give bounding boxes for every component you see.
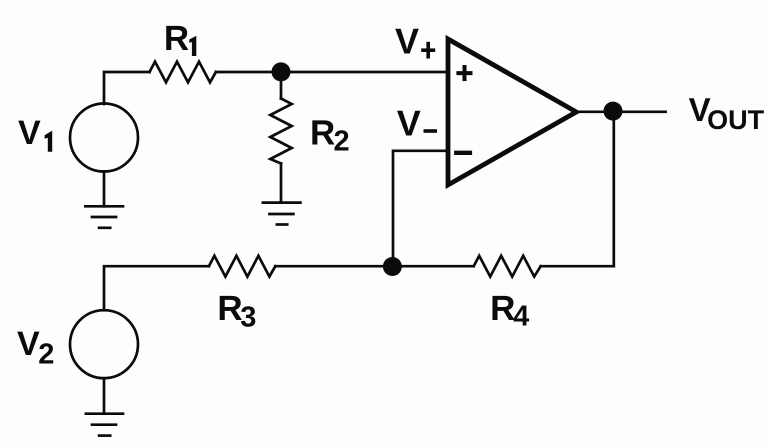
wire R1 to op-amp + input (through node A) xyxy=(216,71,448,74)
label VOUT xyxy=(689,91,765,135)
svg-text:V: V xyxy=(17,325,40,363)
svg-text:2: 2 xyxy=(38,338,54,370)
svg-text:OUT: OUT xyxy=(707,105,765,135)
wire V1 top to R1 xyxy=(104,72,150,104)
svg-text:R: R xyxy=(217,289,242,328)
svg-text:R: R xyxy=(164,19,189,58)
wire R4 to output vertical xyxy=(541,265,614,268)
op-amp U1 xyxy=(448,39,576,185)
svg-text:V: V xyxy=(395,21,419,62)
svg-text:V: V xyxy=(18,114,41,152)
label R1 xyxy=(164,19,196,58)
op-amp + input sign xyxy=(456,65,472,81)
svg-text:R: R xyxy=(310,113,335,152)
wire R2 to ground xyxy=(280,164,283,203)
label V1 xyxy=(18,114,52,152)
node B junction dot xyxy=(383,257,402,276)
voltage source V1 xyxy=(70,104,138,172)
label V2 xyxy=(17,325,54,370)
resistor R3 xyxy=(209,256,275,277)
label V- xyxy=(397,103,437,144)
wire R3 to node B xyxy=(275,265,473,268)
wire V2 top to R3 xyxy=(104,266,209,310)
ground below R2 xyxy=(263,203,301,225)
svg-text:3: 3 xyxy=(240,301,256,333)
wire V- input xyxy=(393,151,448,267)
label R2 xyxy=(310,113,350,157)
wire V2 bottom to ground xyxy=(103,378,106,414)
ground below V1 xyxy=(85,206,123,228)
output node junction dot xyxy=(604,102,623,121)
resistor R4 xyxy=(474,256,541,277)
label R4 xyxy=(490,289,529,333)
wire op-amp output xyxy=(576,110,666,113)
voltage source V2 xyxy=(70,310,138,378)
node A junction dot xyxy=(272,62,291,81)
op-amp - input sign xyxy=(454,151,472,155)
resistor R2 xyxy=(270,99,291,164)
wire node A to R2 xyxy=(280,72,283,99)
svg-text:V: V xyxy=(397,103,421,144)
wire output node down to R4 xyxy=(612,111,615,266)
svg-text:2: 2 xyxy=(334,126,350,158)
svg-text:4: 4 xyxy=(513,300,529,332)
wire V1 bottom to ground xyxy=(103,172,106,207)
ground below V2 xyxy=(86,414,123,436)
resistor R1 xyxy=(150,62,216,83)
svg-text:R: R xyxy=(490,289,515,328)
label R3 xyxy=(217,289,256,334)
label V+ xyxy=(395,21,435,62)
